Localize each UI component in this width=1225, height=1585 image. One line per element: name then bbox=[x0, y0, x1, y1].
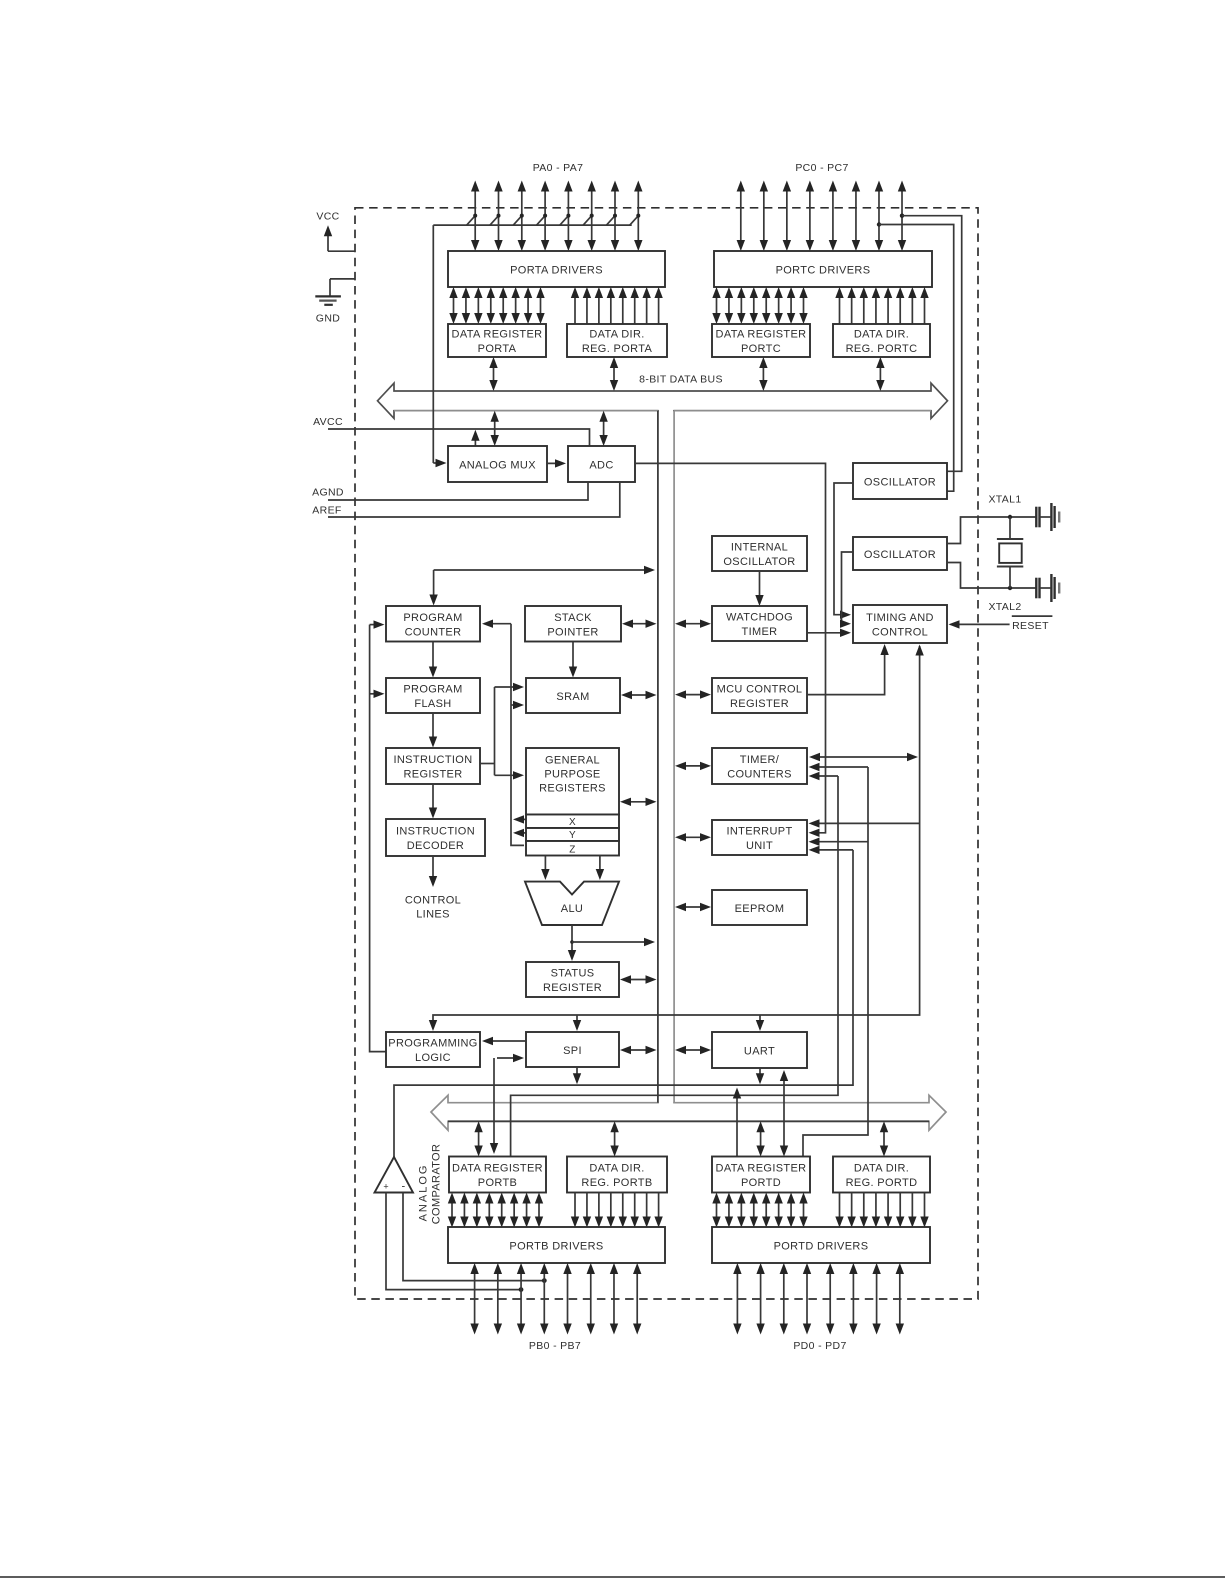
block GENERAL PURPOSE REGISTERS bbox=[526, 748, 619, 815]
wire DATA DIR REG PORTC to bus bbox=[876, 357, 884, 391]
svg-text:REGISTER: REGISTER bbox=[403, 769, 462, 781]
svg-text:PROGRAMMING: PROGRAMMING bbox=[388, 1038, 477, 1050]
wire external interrupts from PORTD bbox=[803, 767, 868, 1158]
block DATA DIR. REG. PORTC bbox=[833, 324, 930, 357]
wire DATA REGISTER PORTA to bus bbox=[489, 357, 497, 391]
svg-text:DATA REGISTER: DATA REGISTER bbox=[452, 329, 543, 341]
wire DATA REGISTER PORTD to bus bbox=[756, 1121, 764, 1156]
wire ADC to interrupt unit bbox=[635, 463, 826, 837]
svg-text:DATA DIR.: DATA DIR. bbox=[589, 329, 644, 341]
svg-text:COUNTERS: COUNTERS bbox=[727, 769, 792, 781]
block UART bbox=[712, 1032, 807, 1068]
svg-text:LOGIC: LOGIC bbox=[415, 1052, 451, 1064]
block DATA DIR. REG. PORTA bbox=[567, 324, 667, 357]
block PORTC DRIVERS bbox=[714, 251, 932, 287]
label PB0 - PB7 bbox=[529, 1340, 581, 1352]
wire timing control rail bbox=[429, 645, 924, 1032]
svg-text:DATA REGISTER: DATA REGISTER bbox=[716, 329, 807, 341]
svg-text:REG. PORTD: REG. PORTD bbox=[846, 1177, 918, 1189]
block STATUS REGISTER bbox=[526, 962, 619, 997]
svg-text:REG. PORTB: REG. PORTB bbox=[581, 1177, 652, 1189]
label 8-BIT DATA BUS bbox=[639, 374, 723, 386]
wire ANALOG MUX to bus bbox=[491, 411, 499, 446]
svg-text:PC0 - PC7: PC0 - PC7 bbox=[795, 162, 848, 174]
svg-text:AGND: AGND bbox=[312, 487, 344, 499]
wire registers to ALU (left) bbox=[541, 856, 549, 881]
svg-text:DATA DIR.: DATA DIR. bbox=[854, 329, 909, 341]
wire AVCC net bbox=[313, 416, 589, 446]
wire mux feed from PA tap rail bbox=[433, 225, 446, 467]
svg-text:PD0 - PD7: PD0 - PD7 bbox=[793, 1340, 846, 1352]
svg-text:PB0 - PB7: PB0 - PB7 bbox=[529, 1340, 581, 1352]
svg-text:REGISTERS: REGISTERS bbox=[539, 782, 606, 794]
wire general purpose registers to bus bbox=[620, 798, 657, 806]
svg-text:DATA REGISTER: DATA REGISTER bbox=[716, 1163, 807, 1175]
svg-text:8-BIT DATA BUS: 8-BIT DATA BUS bbox=[639, 374, 723, 386]
svg-text:STATUS: STATUS bbox=[551, 968, 595, 980]
wire registers to ALU (right) bbox=[596, 856, 604, 881]
wire AGND net bbox=[312, 482, 588, 500]
wire DATA REGISTER PORTB to bus bbox=[474, 1121, 482, 1156]
svg-text:DATA DIR.: DATA DIR. bbox=[854, 1163, 909, 1175]
wire DATA REGISTER PORTC to bus bbox=[759, 357, 767, 391]
block INSTRUCTION REGISTER bbox=[386, 748, 480, 784]
block PORTA DRIVERS bbox=[448, 251, 665, 287]
wire RESET input bbox=[949, 616, 1053, 632]
wire SPI to bus bbox=[620, 1046, 657, 1054]
svg-text:PORTC: PORTC bbox=[741, 343, 781, 355]
svg-text:DATA REGISTER: DATA REGISTER bbox=[452, 1163, 543, 1175]
svg-text:OSCILLATOR: OSCILLATOR bbox=[723, 556, 795, 568]
bus 8-bit data bus (lower) arrow body bbox=[431, 1095, 946, 1130]
wires PORTB dir register to drivers (8 lines) bbox=[571, 1193, 663, 1228]
wires PD0-PD7 pin lines bbox=[733, 1263, 904, 1335]
wire analog mux tap rail with taps on PA pins bbox=[433, 214, 640, 226]
wires PORTC drivers to dir register (8 lines) bbox=[835, 287, 928, 324]
svg-text:Z: Z bbox=[569, 844, 575, 855]
svg-text:TIMER: TIMER bbox=[742, 626, 778, 638]
block DATA DIR. REG. PORTB bbox=[567, 1157, 667, 1193]
wire bus to program counter bbox=[429, 566, 655, 606]
label XTAL1 bbox=[988, 494, 1021, 506]
block PORTD DRIVERS bbox=[712, 1227, 930, 1263]
svg-text:INTERRUPT: INTERRUPT bbox=[726, 826, 792, 838]
wire AREF net bbox=[312, 482, 620, 517]
svg-text:SPI: SPI bbox=[563, 1045, 582, 1057]
block DATA DIR. REG. PORTD bbox=[833, 1157, 930, 1193]
svg-text:UNIT: UNIT bbox=[746, 840, 773, 852]
block DATA REGISTER PORTA bbox=[448, 324, 546, 357]
wire programming rail (left) bbox=[370, 620, 386, 1051]
page footer rule bbox=[0, 1576, 1225, 1578]
block DATA REGISTER PORTC bbox=[712, 324, 810, 357]
svg-text:CONTROL: CONTROL bbox=[405, 895, 461, 907]
block INSTRUCTION DECODER bbox=[386, 819, 485, 856]
label PC0 - PC7 bbox=[795, 162, 848, 174]
register Y bbox=[526, 828, 619, 841]
svg-text:SRAM: SRAM bbox=[556, 691, 589, 703]
wire comparator + input from PB2 bbox=[386, 1193, 523, 1293]
svg-text:CONTROL: CONTROL bbox=[872, 627, 928, 639]
svg-text:PROGRAM: PROGRAM bbox=[403, 684, 462, 696]
svg-text:PROGRAM: PROGRAM bbox=[403, 612, 462, 624]
svg-text:REGISTER: REGISTER bbox=[543, 982, 602, 994]
block SPI bbox=[526, 1032, 619, 1067]
svg-text:ANALOG: ANALOG bbox=[418, 1164, 430, 1222]
block INTERRUPT UNIT bbox=[712, 820, 807, 855]
wire GND lead bbox=[330, 279, 355, 297]
svg-text:X: X bbox=[569, 817, 576, 828]
wire WATCHDOG TIMER to timing bbox=[807, 629, 851, 637]
wire instruction decoder to control lines bbox=[429, 856, 437, 887]
svg-text:PORTD: PORTD bbox=[741, 1177, 781, 1189]
wire program flash to instruction register bbox=[429, 713, 437, 748]
svg-text:INTERNAL: INTERNAL bbox=[731, 542, 788, 554]
wire status register to bus bbox=[620, 975, 657, 983]
svg-text:PA0 - PA7: PA0 - PA7 bbox=[533, 162, 584, 174]
svg-text:FLASH: FLASH bbox=[414, 698, 451, 710]
block PROGRAMMING LOGIC bbox=[386, 1032, 480, 1067]
wire ANALOG MUX to ADC bbox=[547, 459, 566, 467]
block MCU CONTROL REGISTER bbox=[712, 678, 807, 713]
capacitor C1 and ground (XTAL1) bbox=[1036, 503, 1059, 531]
svg-text:REG. PORTA: REG. PORTA bbox=[582, 343, 653, 355]
svg-text:WATCHDOG: WATCHDOG bbox=[726, 612, 793, 624]
svg-text:ANALOG MUX: ANALOG MUX bbox=[459, 459, 536, 471]
crystal Y1 bbox=[997, 517, 1023, 588]
wire PC6 tap to oscillator bbox=[877, 222, 954, 491]
wires PA0-PA7 pin lines bbox=[471, 181, 643, 252]
wire watchdog to bus bbox=[675, 620, 711, 628]
wire instruction register to decoder bbox=[429, 784, 437, 819]
wire MCU control register to timing bbox=[807, 644, 889, 695]
svg-text:TIMING AND: TIMING AND bbox=[866, 612, 934, 624]
wire timer/counters to timing rail bbox=[809, 753, 918, 761]
label CONTROL LINES bbox=[405, 895, 461, 921]
label XTAL2 bbox=[988, 601, 1021, 613]
wire timer/counters to bus bbox=[675, 762, 711, 770]
svg-text:ADC: ADC bbox=[589, 459, 613, 471]
wire XTAL1 net bbox=[947, 515, 1036, 544]
block TIMER/COUNTERS bbox=[712, 748, 807, 784]
svg-text:VCC: VCC bbox=[316, 211, 339, 223]
block OSCILLATOR U1 (timer osc) bbox=[853, 463, 947, 499]
svg-text:OSCILLATOR: OSCILLATOR bbox=[864, 549, 936, 561]
svg-text:XTAL2: XTAL2 bbox=[988, 601, 1021, 613]
svg-text:AVCC: AVCC bbox=[313, 416, 343, 428]
wire EEPROM to bus bbox=[675, 903, 711, 911]
svg-text:EEPROM: EEPROM bbox=[735, 903, 785, 915]
wire internal osc to watchdog bbox=[755, 571, 763, 606]
wire PB timer input (T0/T1) bbox=[511, 763, 868, 1158]
svg-text:INSTRUCTION: INSTRUCTION bbox=[393, 754, 472, 766]
block STACK POINTER bbox=[525, 606, 621, 642]
svg-text:-: - bbox=[401, 1181, 405, 1193]
wire DATA DIR REG PORTB to bus bbox=[610, 1121, 618, 1156]
svg-text:REGISTER: REGISTER bbox=[730, 698, 789, 710]
svg-text:INSTRUCTION: INSTRUCTION bbox=[396, 826, 475, 838]
block PORTB DRIVERS bbox=[448, 1227, 665, 1263]
svg-text:DECODER: DECODER bbox=[407, 840, 464, 852]
block TIMING AND CONTROL bbox=[853, 605, 947, 643]
wire ANALOG MUX to AVCC bbox=[471, 430, 479, 446]
wire ALU to status register and bus bbox=[568, 925, 655, 961]
svg-text:XTAL1: XTAL1 bbox=[988, 494, 1021, 506]
svg-text:PORTD DRIVERS: PORTD DRIVERS bbox=[774, 1240, 869, 1252]
power VCC arrow bbox=[324, 225, 355, 251]
wires PORTD data register to drivers (8 lines) bbox=[712, 1193, 807, 1228]
wires PORTA drivers to dir register (8 lines) bbox=[571, 287, 663, 324]
svg-text:UART: UART bbox=[744, 1045, 775, 1057]
svg-text:TIMER/: TIMER/ bbox=[740, 754, 780, 766]
svg-text:PORTA DRIVERS: PORTA DRIVERS bbox=[510, 264, 603, 276]
svg-text:Y: Y bbox=[569, 830, 576, 841]
ground GND label bbox=[316, 313, 340, 325]
label ANALOG COMPARATOR bbox=[418, 1144, 443, 1225]
wire DATA DIR REG PORTD to bus bbox=[880, 1121, 888, 1156]
svg-text:PORTB DRIVERS: PORTB DRIVERS bbox=[509, 1240, 603, 1252]
svg-text:DATA DIR.: DATA DIR. bbox=[589, 1163, 644, 1175]
wire UART RXD from PORTD bbox=[780, 1070, 788, 1157]
bus pipe right edge bbox=[673, 411, 675, 1103]
block PROGRAM FLASH bbox=[386, 678, 480, 713]
op-amp ANALOG COMPARATOR bbox=[375, 1157, 414, 1193]
block DATA REGISTER PORTD bbox=[712, 1157, 810, 1193]
register Z bbox=[526, 841, 619, 856]
svg-text:PORTA: PORTA bbox=[478, 343, 517, 355]
block EEPROM bbox=[712, 890, 807, 925]
wires PORTD dir register to drivers (8 lines) bbox=[835, 1193, 928, 1228]
bus pipe left edge bbox=[657, 411, 659, 1103]
wires PC0-PC7 pin lines bbox=[737, 181, 907, 252]
wire instruction register to SRAM and registers bbox=[480, 683, 524, 780]
power VCC label bbox=[316, 211, 339, 223]
wire program counter to program flash bbox=[429, 642, 437, 678]
wires PB0-PB7 pin lines bbox=[470, 1263, 641, 1335]
register X bbox=[526, 815, 619, 829]
wire PORTD pin to comparator net bbox=[733, 1088, 741, 1158]
block DATA REGISTER PORTB bbox=[449, 1157, 546, 1193]
ground symbol GND bbox=[315, 296, 341, 304]
svg-text:AREF: AREF bbox=[312, 505, 341, 517]
wire DATA DIR REG PORTA to bus bbox=[610, 357, 618, 391]
svg-text:STACK: STACK bbox=[554, 612, 592, 624]
svg-text:GND: GND bbox=[316, 313, 340, 325]
svg-text:+: + bbox=[383, 1182, 389, 1192]
block OSCILLATOR U2 (main osc) bbox=[853, 537, 947, 570]
wire indirect addressing rail (X/Y/Z to PC and SRAM) bbox=[482, 620, 526, 846]
svg-text:PORTC DRIVERS: PORTC DRIVERS bbox=[776, 264, 871, 276]
wires PORTB data register to drivers (8 lines) bbox=[448, 1193, 543, 1228]
block INTERNAL OSCILLATOR bbox=[712, 536, 807, 571]
svg-text:OSCILLATOR: OSCILLATOR bbox=[864, 476, 936, 488]
wire SRAM to bus bbox=[621, 691, 657, 699]
svg-text:PURPOSE: PURPOSE bbox=[544, 768, 600, 780]
svg-text:REG. PORTC: REG. PORTC bbox=[846, 343, 918, 355]
block ALU bbox=[525, 882, 619, 925]
label PD0 - PD7 bbox=[793, 1340, 846, 1352]
block WATCHDOG TIMER bbox=[712, 606, 807, 641]
block ADC bbox=[568, 446, 635, 482]
wire SPI TX to comparator net bbox=[573, 1067, 581, 1084]
wires PORTA drivers to data register (8 lines) bbox=[449, 287, 544, 324]
svg-text:POINTER: POINTER bbox=[547, 626, 598, 638]
svg-text:LINES: LINES bbox=[416, 909, 450, 921]
svg-text:RESET: RESET bbox=[1012, 620, 1049, 632]
block ANALOG MUX bbox=[448, 446, 547, 482]
wire OSCILLATOR U1 to timing bbox=[834, 483, 853, 619]
wire interrupt unit to bus bbox=[675, 833, 711, 841]
wire UART TXD bbox=[756, 1068, 764, 1084]
capacitor C2 and ground (XTAL2) bbox=[1036, 574, 1059, 602]
svg-text:COMPARATOR: COMPARATOR bbox=[431, 1144, 443, 1225]
svg-text:PORTB: PORTB bbox=[478, 1177, 517, 1189]
wire ADC to bus bbox=[599, 411, 607, 446]
label PA0 - PA7 bbox=[533, 162, 584, 174]
wires PORTC drivers to data register (8 lines) bbox=[712, 287, 807, 324]
wire OSCILLATOR U2 to timing bbox=[840, 552, 853, 628]
svg-text:MCU CONTROL: MCU CONTROL bbox=[717, 684, 803, 696]
wire PC7 tap to oscillator bbox=[900, 214, 962, 472]
wire analog comparator to interrupt bbox=[394, 846, 853, 1158]
block SRAM bbox=[526, 678, 620, 713]
block PROGRAM COUNTER bbox=[386, 606, 480, 642]
wire MCU control register to bus bbox=[675, 690, 711, 698]
svg-text:ALU: ALU bbox=[561, 903, 583, 915]
wire SPI to PORTB pins bbox=[490, 1054, 524, 1154]
wire timing rail to interrupt unit bbox=[809, 819, 920, 827]
wire stack pointer to bus bbox=[622, 620, 657, 628]
svg-text:COUNTER: COUNTER bbox=[405, 626, 462, 638]
svg-text:GENERAL: GENERAL bbox=[545, 754, 600, 766]
bus 8-BIT DATA BUS (top) arrow body bbox=[378, 383, 948, 418]
dashed chip boundary bbox=[355, 208, 978, 1299]
wire stack pointer to SRAM bbox=[569, 642, 577, 678]
wire SPI to programming logic bbox=[482, 1037, 526, 1045]
wire UART to bus bbox=[675, 1046, 711, 1054]
wire XTAL2 net bbox=[947, 563, 1036, 591]
wire comparator - input from PB3 bbox=[403, 1193, 547, 1284]
